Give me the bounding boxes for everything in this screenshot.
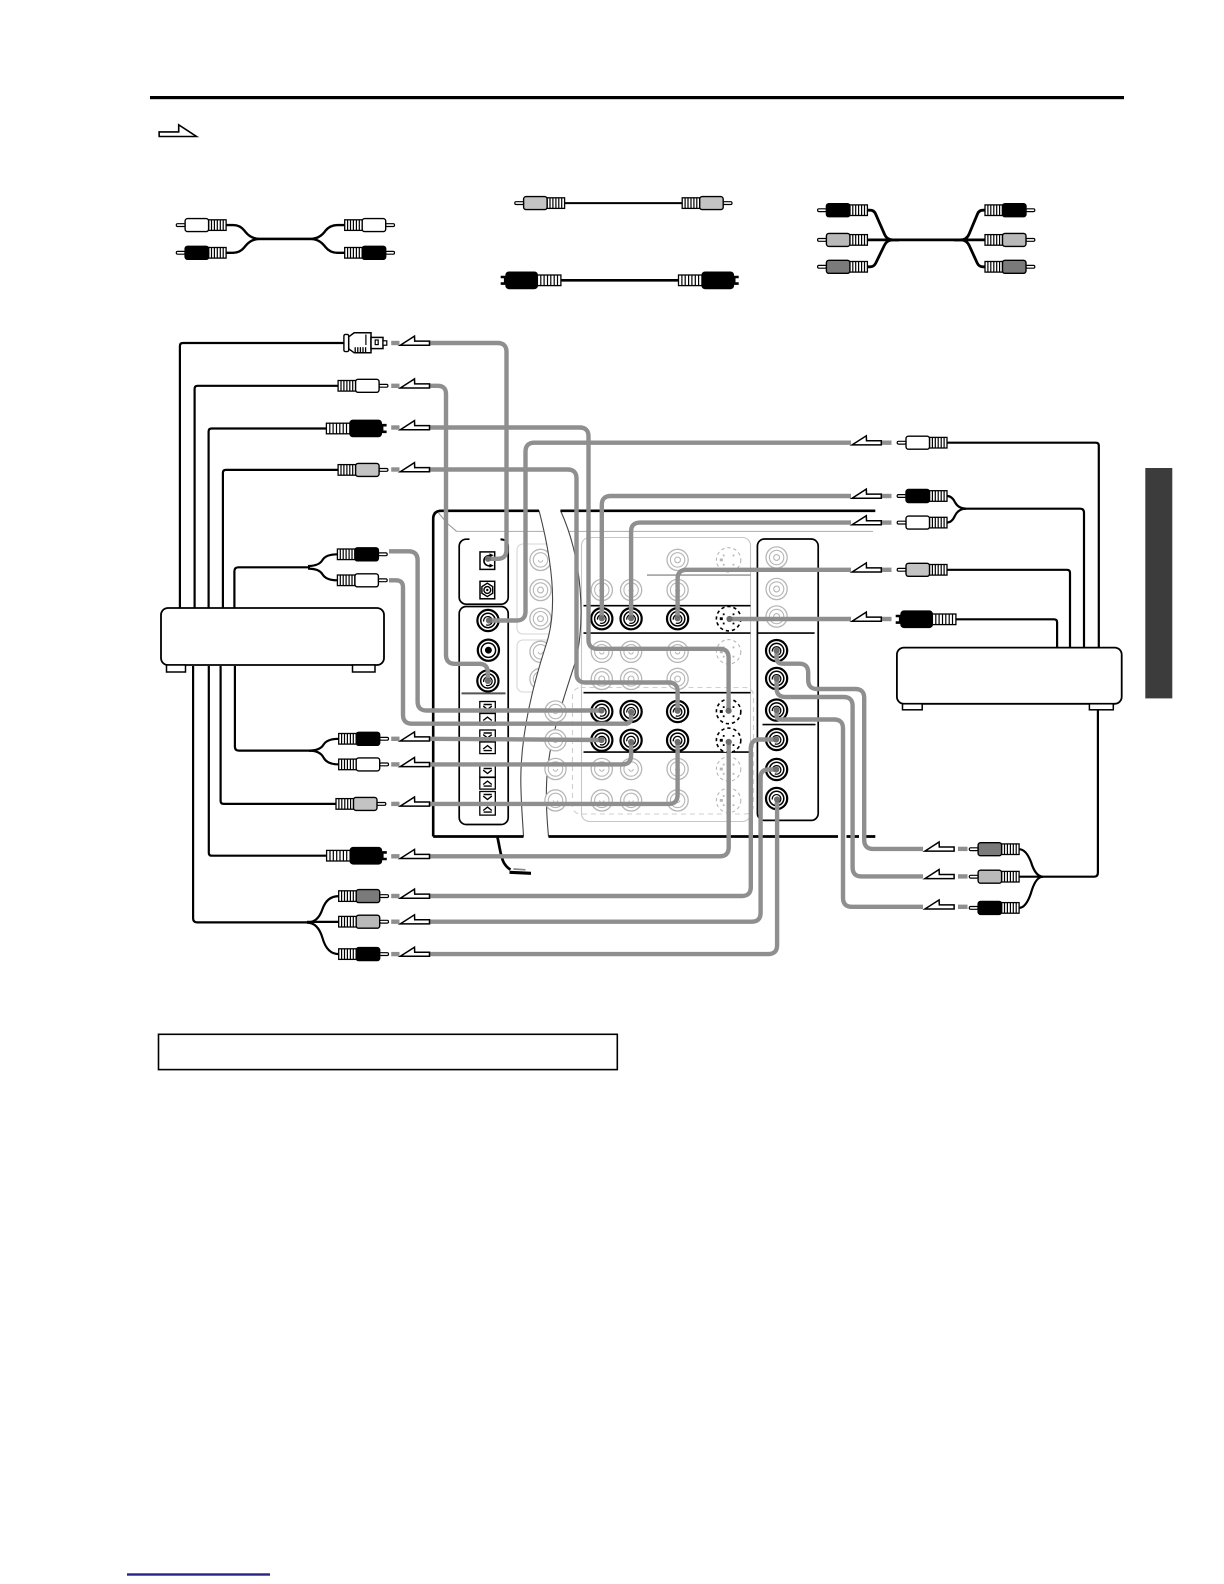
faint jacks right column bbox=[766, 547, 787, 627]
cable audio pair1 L bbox=[389, 551, 605, 713]
AV cable illustration bbox=[818, 204, 1035, 274]
cable s-video right bbox=[726, 616, 851, 622]
left subpanel separator bbox=[462, 692, 506, 694]
component Pr plug right bbox=[969, 901, 1019, 914]
component Pb plug left bbox=[339, 915, 389, 928]
wire audio pair to camcorder bbox=[947, 496, 1084, 648]
faint jacks (unused inputs) bbox=[591, 548, 741, 813]
s-video jack row7 bbox=[716, 728, 740, 752]
cable R6 to component Pr right bbox=[777, 711, 923, 907]
power cord bbox=[498, 838, 532, 874]
video plug 1 bbox=[338, 463, 388, 476]
connection arrows bbox=[400, 336, 954, 956]
wire video plug 2 to VCR bbox=[221, 666, 336, 804]
wire video plug to camcorder bbox=[947, 570, 1070, 648]
audio pair1 black plug bbox=[337, 548, 387, 561]
receiver panel bevel bbox=[439, 513, 874, 531]
cable s-video 2 bbox=[430, 739, 732, 856]
s-video plug 1 bbox=[326, 420, 386, 437]
right subpanel separator 1 bbox=[757, 632, 814, 634]
wire s-video plug 2 to VCR bbox=[209, 666, 327, 856]
wire audio pair 2 to VCR bbox=[235, 666, 339, 764]
cable video 1 to receiver bbox=[429, 470, 680, 714]
wire s-video plug to VCR bbox=[209, 429, 327, 609]
analog input jack L1 bbox=[477, 610, 498, 631]
jack group separators bbox=[584, 575, 751, 752]
audio pair1 white plug bbox=[337, 574, 387, 587]
faint jack column lower bbox=[545, 701, 566, 811]
audio pin cable illustration bbox=[176, 219, 394, 260]
wire video plug to VCR bbox=[223, 470, 338, 608]
footer blue rule bbox=[127, 1573, 270, 1575]
s-video cable illustration bbox=[501, 272, 739, 289]
note box bbox=[159, 1034, 618, 1069]
video plug 2 bbox=[336, 797, 386, 810]
audio pair2 black plug bbox=[339, 732, 389, 745]
optical digital jack bbox=[480, 552, 495, 570]
analog input jack L3 bbox=[477, 670, 498, 691]
white audio plug 1 bbox=[338, 379, 388, 392]
s-video plug right bbox=[896, 611, 956, 628]
optical plug bbox=[344, 333, 387, 353]
component Pb plug right bbox=[969, 870, 1019, 883]
video in/out icon squares bbox=[480, 702, 496, 816]
cable component Y to R7 bbox=[430, 736, 780, 896]
video pin cable illustration bbox=[515, 197, 732, 210]
audio pair2 white plug bbox=[339, 758, 389, 771]
faint 6ch group boxes bbox=[517, 544, 566, 692]
audio pair right black plug bbox=[897, 490, 947, 503]
camcorder device box bbox=[897, 648, 1122, 710]
cable tips bbox=[774, 648, 780, 714]
cable R5 to component Pb right bbox=[777, 680, 923, 877]
right subpanel separator 2 bbox=[763, 724, 816, 726]
cable component Pb to R8 bbox=[430, 766, 780, 921]
component Y plug left bbox=[339, 890, 389, 903]
wire optical plug to VCR bbox=[180, 343, 344, 608]
s-video jack row3 bbox=[716, 607, 740, 631]
audio pair right white plug bbox=[897, 516, 947, 529]
cable video right bbox=[675, 570, 852, 622]
wire white audio plug to VCR bbox=[195, 386, 339, 608]
cable white audio to receiver L3 bbox=[429, 386, 491, 684]
VCR device box bbox=[161, 608, 384, 672]
top horizontal rule bbox=[150, 96, 1124, 99]
s-video jack row6 bbox=[716, 699, 740, 723]
cable video 2 bbox=[430, 739, 681, 804]
receiver panel outline bbox=[433, 511, 875, 837]
component Pr plug left bbox=[339, 948, 389, 961]
coaxial digital jack bbox=[480, 581, 495, 599]
cable audio pair1 R bbox=[389, 580, 634, 723]
wire component cable to camcorder bbox=[1019, 709, 1098, 908]
page edge tab bbox=[1145, 468, 1172, 698]
faint grid group box bbox=[582, 538, 751, 822]
cable R4 to component Y right bbox=[777, 652, 923, 849]
cable audio right pair R bbox=[628, 523, 851, 622]
cable component Pr to R9 bbox=[430, 796, 781, 954]
faint jack column (6ch input) bbox=[530, 549, 551, 689]
white audio plug right bbox=[897, 436, 947, 449]
wire audio pair to VCR bbox=[234, 554, 337, 608]
cable audio right pair L bbox=[599, 496, 851, 621]
component Y plug right bbox=[969, 843, 1019, 856]
cable optical to receiver bbox=[429, 343, 506, 562]
cable audio pair2 R bbox=[430, 739, 635, 765]
cable audio pair2 L bbox=[430, 737, 605, 743]
wire white audio plug to camcorder bbox=[947, 443, 1099, 648]
faint VCR group dashed box bbox=[573, 688, 754, 815]
video plug right bbox=[897, 563, 947, 576]
active output jacks right column bbox=[766, 640, 787, 809]
analog jack group box bbox=[459, 607, 508, 825]
cable white audio right to L1 bbox=[486, 443, 851, 624]
panel tear gap bbox=[521, 511, 581, 837]
s-video plug 2 bbox=[327, 848, 387, 865]
wire s-video plug to camcorder bbox=[956, 619, 1057, 647]
analog input jack L2 bbox=[478, 640, 499, 661]
section arrow icon bbox=[159, 125, 196, 137]
cable stubs at plugs bbox=[391, 343, 967, 954]
active input jacks bbox=[591, 608, 688, 751]
digital jack group box bbox=[459, 538, 508, 605]
cable s-video 1 to receiver bbox=[429, 428, 731, 714]
wire component cable to VCR bbox=[193, 666, 339, 954]
right jack group box bbox=[757, 539, 818, 820]
